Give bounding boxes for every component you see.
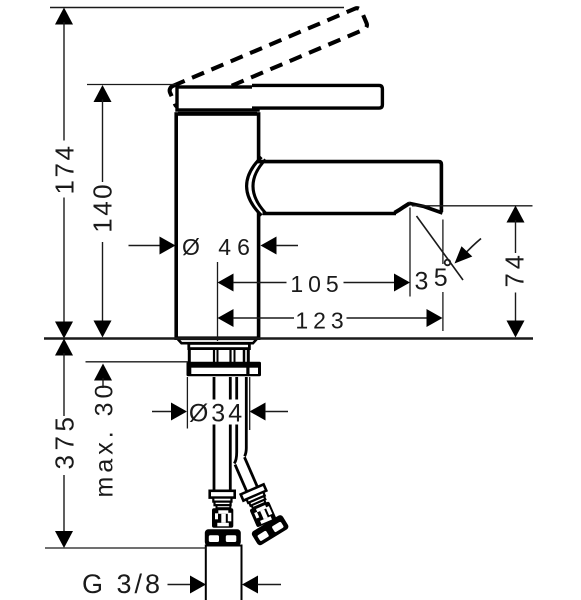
spout underside <box>263 212 397 215</box>
mounting plane line <box>44 337 533 339</box>
extension line: hose end plane (375 ref) <box>45 547 206 549</box>
hose lines inside shank <box>213 349 215 363</box>
left supply hose <box>213 377 216 491</box>
svg-text:140: 140 <box>88 182 118 233</box>
spout underside right (aerator face) <box>409 203 443 213</box>
extension line: aerator position <box>409 208 411 297</box>
centerline extension (faucet axis) <box>217 262 219 341</box>
svg-text:375: 375 <box>50 413 80 470</box>
right supply hose vertical part <box>234 377 236 464</box>
cap lower ring <box>178 112 257 115</box>
dim 140 vertical <box>88 85 118 338</box>
svg-text:Ø34: Ø34 <box>189 400 245 428</box>
diagonal hose tube <box>235 465 247 493</box>
spout-body fillet arc inner <box>253 160 266 214</box>
right hose connector (angled) <box>222 452 292 548</box>
extension line: raised lever top <box>50 7 344 9</box>
threaded shank right edge <box>247 349 250 363</box>
crimp rings <box>213 498 231 502</box>
dim G 3/8 horizontal <box>82 569 281 599</box>
extension line: aerator underside (74 ref) <box>412 205 533 207</box>
svg-text:max. 30: max. 30 <box>91 381 119 498</box>
spout top and end edge <box>257 162 441 212</box>
left hose connector <box>205 491 241 546</box>
base gasket (trapezoid) <box>178 339 258 343</box>
extension line: flange top (max30 ref) <box>86 361 189 363</box>
connector body (hex in profile) <box>212 508 233 528</box>
dim 375 vertical <box>50 339 80 549</box>
extension line: cap top (140 ref) <box>87 84 176 86</box>
end hex nut <box>205 529 241 545</box>
collar <box>241 484 267 500</box>
extension line: spout end <box>442 220 444 332</box>
spout fill <box>256 162 441 213</box>
svg-text:G 3/8: G 3/8 <box>82 569 163 599</box>
end hex nut <box>251 514 290 547</box>
svg-text:Ø 46: Ø 46 <box>182 234 256 260</box>
extension line: shank left <box>186 377 188 429</box>
collar <box>210 491 235 498</box>
dim 174 vertical <box>50 8 80 339</box>
base ring <box>189 343 250 348</box>
label 35deg <box>413 264 450 292</box>
dim max. 30 vertical <box>91 364 119 498</box>
handle lever (horizontal, closed position) <box>252 85 382 108</box>
mounting flange / fastening nut <box>187 362 262 377</box>
threaded shank left edge <box>188 349 191 363</box>
svg-text:5: 5 <box>434 264 448 292</box>
dim 105 horizontal <box>218 271 411 297</box>
svg-text:74: 74 <box>502 251 530 287</box>
35 degree aerator axis line <box>417 216 464 280</box>
crimp rings <box>247 492 265 503</box>
G3/8 connection tube <box>206 546 242 600</box>
svg-text:174: 174 <box>50 144 80 195</box>
35 degree leader arrow <box>464 239 481 255</box>
dim 123 horizontal <box>218 308 443 334</box>
svg-text:123: 123 <box>295 308 348 334</box>
faucet body <box>176 114 258 338</box>
aerator notch left flank <box>395 203 410 213</box>
cartridge cap <box>177 87 258 110</box>
svg-text:105: 105 <box>290 271 343 297</box>
dim Ø34 horizontal <box>152 400 288 428</box>
dim Ø 46 horizontal <box>129 234 299 260</box>
extension line: shank right <box>249 377 251 430</box>
raised handle lever (dashed, open position) <box>168 7 368 109</box>
spout-body fillet arc outer <box>247 157 262 216</box>
svg-text:3: 3 <box>415 268 429 296</box>
dim 74 vertical <box>502 206 530 338</box>
connector body <box>249 501 276 527</box>
